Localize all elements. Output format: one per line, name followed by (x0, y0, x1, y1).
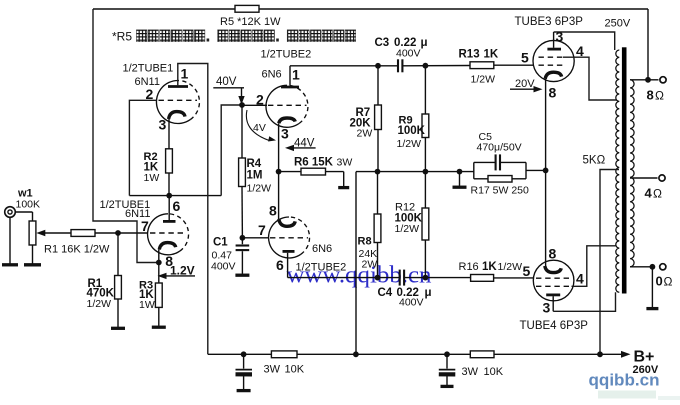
label pin 3 TUBE4 (543, 300, 551, 316)
label C3 (375, 37, 428, 60)
label pin 5 TUBE4 (523, 263, 531, 279)
svg-text:6N11: 6N11 (125, 208, 150, 220)
svg-text:1/2W: 1/2W (395, 223, 420, 235)
plate bar U1b (pin 6) (163, 196, 176, 222)
watermark qqibb.cn (bottom right, steel blue) (589, 372, 660, 390)
svg-text:R6 15K: R6 15K (294, 157, 334, 169)
label pin 6 U1b (173, 198, 181, 214)
svg-text:C3: C3 (375, 37, 390, 49)
label R13 wattage (471, 74, 496, 86)
capacitor C3 (398, 59, 402, 72)
label R16 1K 1/2W (459, 261, 523, 273)
label pin 2 U1a (146, 86, 154, 102)
svg-text:8: 8 (549, 246, 557, 262)
svg-text:20V: 20V (515, 78, 535, 90)
label 0 ohm (656, 274, 673, 289)
wire R6 to ground (343, 172, 345, 187)
wire wiper to R1 (40, 232, 71, 234)
label 6N6 (upper) (262, 69, 282, 81)
svg-text:7: 7 (258, 222, 266, 238)
svg-text:1W: 1W (139, 299, 155, 311)
label 1/2TUBE2 (lower) (296, 262, 347, 274)
svg-text:R4: R4 (247, 158, 262, 170)
plate bar TUBE4 (pin 3) (546, 295, 560, 311)
cathode TUBE4 (pin 8) (545, 170, 561, 272)
svg-text:40V: 40V (216, 76, 237, 88)
label w1 value 100K (16, 199, 41, 211)
svg-text:TUBE4 6P3P: TUBE4 6P3P (520, 320, 589, 332)
svg-text:R1 16K 1/2W: R1 16K 1/2W (44, 244, 110, 256)
svg-text:6N6: 6N6 (312, 243, 332, 255)
svg-text:R8: R8 (358, 236, 372, 248)
svg-text:250V: 250V (605, 18, 631, 30)
svg-text:1/2W: 1/2W (471, 74, 496, 86)
svg-text:R16: R16 (459, 261, 479, 273)
pentode TUBE4 circle (533, 260, 574, 301)
node grid TUBE1b (115, 230, 121, 236)
svg-text:1: 1 (292, 67, 300, 83)
svg-text:TUBE3 6P3P: TUBE3 6P3P (515, 16, 584, 28)
node mid-rail drop (353, 351, 359, 357)
ground (R6) (338, 186, 349, 189)
resistor R17 branch (474, 176, 526, 183)
label C4 (378, 287, 432, 309)
svg-text:100K: 100K (398, 125, 426, 137)
label 4 ohm (645, 186, 663, 201)
svg-text:1W: 1W (144, 172, 160, 184)
ground (potentiometer) (24, 263, 41, 266)
plate bar U2a (pin 1) (281, 66, 299, 87)
wire grid node down to R1 470K (117, 233, 119, 276)
wire R13 to TUBE3 grid (494, 64, 533, 66)
label 6N11 (upper) (135, 76, 160, 88)
electrolytic cap (filter 1) (236, 354, 253, 389)
cathode TUBE3 (pin 8) (545, 72, 561, 170)
node R8 bottom (375, 275, 381, 281)
cathode U2b (pin 8) (279, 172, 296, 227)
svg-text:2W: 2W (357, 128, 373, 140)
wire 0-ohm tap (630, 266, 652, 268)
svg-text:C1: C1 (213, 237, 228, 249)
label 44V with arrow (285, 138, 316, 152)
capacitor C5 branch (474, 154, 526, 170)
grid dash U2a (268, 104, 307, 106)
svg-text:1K: 1K (484, 49, 499, 61)
label C5 (477, 131, 522, 154)
label pin 1 U2a (292, 67, 300, 83)
ground (R3) (152, 326, 166, 329)
wire SRPP output node (y196) (129, 195, 221, 197)
capacitor C1 (236, 238, 250, 274)
label pin 4 TUBE4 (576, 271, 584, 287)
wire R16 to TUBE4 grid (494, 277, 534, 279)
electrolytic cap (filter 2) (439, 354, 456, 385)
ground (filter cap 1) (237, 389, 251, 392)
svg-text:R17 5W 250: R17 5W 250 (471, 185, 530, 197)
node R9/R12 (423, 169, 429, 175)
node R9 top (423, 63, 429, 69)
svg-text:μ: μ (425, 287, 432, 299)
label 3W 10K (right) (462, 366, 504, 378)
svg-text:3: 3 (159, 117, 167, 133)
svg-text:1/2TUBE2: 1/2TUBE2 (261, 49, 312, 61)
resistor R1 16K (71, 230, 95, 237)
svg-text:3W: 3W (462, 366, 479, 378)
svg-text:4: 4 (576, 43, 584, 59)
label R9 (397, 115, 426, 151)
grid dash U1a (159, 99, 198, 101)
label 6N11 (lower) (125, 208, 150, 220)
label B+ (634, 349, 655, 366)
label R1 470K (87, 278, 115, 310)
svg-text:8: 8 (549, 85, 557, 101)
label C1 (211, 237, 236, 273)
wire 8-ohm tap (630, 79, 659, 81)
label pin 7 U2b (258, 222, 266, 238)
triode U2a circle (1/2TUBE2 upper) (266, 85, 308, 127)
transformer primary center tap to B+ (600, 170, 619, 355)
svg-text:*R5: *R5 (112, 30, 132, 44)
svg-text:1: 1 (181, 66, 189, 82)
svg-text:1/2W: 1/2W (87, 298, 112, 310)
svg-text:Ω: Ω (655, 89, 664, 103)
svg-text:R5 *12K 1W: R5 *12K 1W (220, 16, 281, 28)
svg-text:1/2TUBE2: 1/2TUBE2 (296, 262, 347, 274)
node C1 / grid U2b (240, 235, 246, 241)
svg-text:10K: 10K (285, 364, 305, 376)
plate bar U1a (pin 1) (168, 85, 188, 88)
node R12 bottom (423, 275, 429, 281)
wire U2b plate line (y278) (288, 277, 471, 279)
wire plate U1a to B+ rail (178, 64, 208, 355)
wire connector ground stem (9, 217, 11, 264)
wire C5 network to cathode line (526, 162, 546, 178)
wire screen TUBE4 to UL tap (572, 246, 617, 286)
svg-text:Ω: Ω (664, 275, 673, 289)
wire grid U1a to SRPP node (129, 100, 156, 195)
resistor R9 100K (422, 66, 429, 172)
node ground tap mid rail (457, 169, 463, 186)
terminal 0 ohm (660, 264, 666, 270)
svg-text:1/2W: 1/2W (397, 138, 422, 150)
grid dash TUBE4 (pin 5) (536, 277, 572, 279)
ground (0-ohm) (646, 307, 658, 310)
svg-text:0: 0 (656, 274, 663, 289)
resistor R5 (235, 5, 259, 12)
resistor R6 15K (279, 168, 344, 175)
wire mid rail (y172) (356, 171, 474, 173)
resistor R4 1M (239, 105, 246, 238)
label 40V with down arrow (213, 76, 244, 105)
wire B+ rail (208, 353, 627, 355)
watermark pale band bottom right (598, 391, 680, 401)
node R7/R8 (375, 169, 381, 175)
label R1 16K 1/2W (44, 244, 110, 256)
grid dash U1b (150, 232, 187, 234)
svg-text:3W: 3W (337, 157, 353, 169)
cathode U2a (pin 3) (279, 118, 296, 172)
plate bar TUBE3 (pin 3) (547, 32, 561, 49)
svg-text:7: 7 (141, 218, 149, 234)
resistor R8 24K (374, 172, 381, 278)
svg-text:3: 3 (556, 29, 564, 45)
label pin 3 U2a (281, 126, 289, 142)
wire 4-ohm tap (630, 177, 658, 179)
svg-text:1/2TUBE1: 1/2TUBE1 (123, 63, 174, 75)
label 5K ohm (583, 155, 606, 167)
resistor R2 1K (166, 119, 173, 196)
node 0-ohm ground tap (650, 264, 656, 270)
wire R1 470K to ground (117, 299, 119, 327)
svg-text:1/2W: 1/2W (247, 183, 272, 195)
label pin 5 TUBE3 (521, 50, 529, 66)
ground (R1 470K) (111, 327, 125, 330)
label 1.2V with arrow (158, 264, 196, 280)
resistor R12 100K (422, 172, 429, 278)
label TUBE4 6P3P (520, 320, 589, 332)
svg-text:5KΩ: 5KΩ (583, 155, 606, 167)
terminal 8 ohm (660, 77, 666, 83)
svg-text:R13: R13 (459, 49, 480, 61)
svg-text:10K: 10K (484, 366, 504, 378)
wire R1 to grid of TUBE1b (95, 232, 148, 234)
capacitor C4 (400, 270, 404, 286)
transformer primary winding (616, 50, 620, 292)
cathode U1b (pin 8) (159, 243, 176, 263)
arrow B+ (621, 351, 631, 358)
resistor R16 1K (471, 275, 494, 282)
svg-text:6N11: 6N11 (135, 76, 160, 88)
wiper arrow into pot (36, 230, 45, 236)
svg-text:5: 5 (523, 263, 531, 279)
grid dash TUBE3 (pin 5) (539, 64, 564, 66)
cathode U1a (pin 3) (169, 112, 185, 119)
transformer secondary winding (630, 80, 634, 267)
svg-text:400V: 400V (399, 297, 424, 309)
label R12 (395, 202, 423, 236)
wire feedback left drop to cathode (93, 9, 159, 263)
label R7 (350, 107, 373, 140)
label pin 6 U2b (276, 257, 284, 273)
node cathode U1b / feedback / R3 (156, 260, 162, 266)
wire TUBE3 plate to transformer (554, 32, 615, 50)
node TUBE2a grid (239, 102, 245, 108)
label R5 value (220, 16, 281, 28)
label 1/2TUBE2 (261, 49, 312, 61)
input connector w1 (5, 207, 33, 218)
label pin 4 TUBE3 (576, 43, 584, 59)
svg-text:3W: 3W (264, 364, 281, 376)
label pin 1 U1a (181, 66, 189, 82)
svg-text:400V: 400V (211, 261, 236, 273)
node R2/plate U1b (166, 193, 172, 199)
label 3W 10K (left) (264, 364, 305, 376)
node filter cap 1 (241, 351, 247, 357)
svg-text:Ω: Ω (653, 187, 662, 201)
svg-text:400V: 400V (396, 48, 421, 60)
wire mid rail drop to B+ rail (355, 172, 357, 355)
label TUBE3 6P3P (515, 16, 584, 28)
resistor 10K 3W (left) (271, 351, 297, 358)
triode U1a circle (1/2TUBE1 upper) (156, 80, 199, 123)
svg-text:260V: 260V (633, 364, 659, 376)
wire SRPP node to TUBE2a grid (221, 105, 242, 196)
label pin 2 U2a (256, 92, 264, 108)
label R2 (144, 151, 160, 184)
pentode TUBE3 circle (533, 40, 574, 81)
svg-text:6: 6 (173, 198, 181, 214)
node plate U2a / C3 / R7 (375, 63, 381, 69)
transformer core (622, 47, 627, 293)
watermark www.qqibb.cn (center, blue) (287, 262, 432, 289)
resistor 10K 3W (right) (470, 351, 494, 358)
label pin 3 TUBE3 (556, 29, 564, 45)
wire plate U2a to C3 (290, 65, 398, 67)
wire C3 to R13 (403, 65, 470, 67)
wire grid node to U2a (242, 104, 267, 106)
svg-text:100K: 100K (16, 199, 41, 211)
wire mid rail to C5 network (473, 162, 475, 178)
grid dash U2b (270, 237, 308, 239)
screen dash TUBE3 (pin 4) (539, 56, 564, 58)
resistor R7 20K (375, 66, 382, 172)
svg-text:2: 2 (146, 86, 154, 102)
potentiometer w1 body (29, 212, 36, 264)
svg-text:5: 5 (521, 50, 529, 66)
label w1 (17, 188, 33, 200)
svg-text:6N6: 6N6 (262, 69, 282, 81)
label pin 8 U2b (269, 203, 277, 219)
label 8 ohm (647, 88, 665, 103)
triode U2b circle (1/2TUBE2 lower) (269, 217, 310, 258)
resistor R13 1K (470, 62, 494, 69)
node cathode line TUBE3/TUBE4 (543, 168, 549, 174)
svg-text:470μ/50V: 470μ/50V (477, 142, 522, 154)
label pin 7 U1b (141, 218, 149, 234)
svg-text:6: 6 (276, 257, 284, 273)
ground (input connector) (2, 263, 18, 266)
svg-text:3: 3 (281, 126, 289, 142)
wire screen TUBE3 to UL tap (563, 57, 617, 100)
label R13 1K (459, 49, 499, 61)
plate bar U2b (pin 6) (283, 251, 295, 277)
label 20V with arrow (510, 78, 543, 92)
svg-text:8: 8 (269, 203, 277, 219)
resistor R3 1K (155, 263, 162, 326)
terminal 4 ohm (659, 175, 665, 181)
svg-text:μ: μ (421, 37, 428, 49)
svg-text:1K: 1K (482, 261, 497, 273)
svg-text:1/2W: 1/2W (498, 261, 523, 273)
label R6 15K 3W (294, 157, 352, 169)
label pin 8 TUBE3 (549, 85, 557, 101)
screen dash TUBE4 (pin 4) (536, 285, 572, 287)
wire grid U2b to C1 node (242, 237, 269, 239)
label 1/2TUBE1 (lower) (100, 199, 151, 211)
ground (mid rail) (453, 186, 467, 189)
wire feedback top rail (93, 8, 648, 10)
label 4V with curved arrow (246, 110, 276, 141)
label pin 8 U1b (165, 253, 173, 269)
label R8 (358, 236, 378, 271)
label 1/2TUBE1 (upper) (123, 63, 174, 75)
svg-text:C4: C4 (378, 287, 393, 299)
label 260V (633, 364, 659, 376)
svg-text:2: 2 (256, 92, 264, 108)
svg-text:1M: 1M (247, 170, 263, 182)
label R17 5W 250 (471, 185, 530, 197)
node cathodes U2a/U2b + R6 (276, 169, 282, 175)
wire feedback right drop to 8-ohm tap (647, 9, 649, 80)
svg-text:4: 4 (645, 186, 653, 201)
triode U1b circle (1/2TUBE1 lower) (148, 214, 189, 255)
label 6N6 (lower) (312, 243, 332, 255)
svg-text:2W: 2W (362, 259, 378, 271)
node B+ center tap (597, 351, 603, 357)
resistor R1 470K (115, 276, 122, 300)
wire TUBE4 plate to transformer (553, 292, 615, 311)
ground (filter cap 2) (441, 385, 454, 388)
svg-text:8: 8 (647, 88, 654, 103)
label R4 (247, 158, 272, 195)
label R3 (139, 280, 155, 312)
svg-text:3: 3 (543, 300, 551, 316)
wire 0-ohm to ground (651, 267, 653, 307)
node feedback at 8-ohm (645, 77, 651, 83)
label 250V (605, 18, 631, 30)
label pin 8 TUBE4 (549, 246, 557, 262)
node filter cap 2 (444, 351, 450, 357)
ground (C1) (235, 274, 249, 277)
label pin 3 U1a (159, 117, 167, 133)
svg-text:4: 4 (576, 271, 584, 287)
annotation text about R5 feedback (Chinese) (112, 30, 356, 44)
